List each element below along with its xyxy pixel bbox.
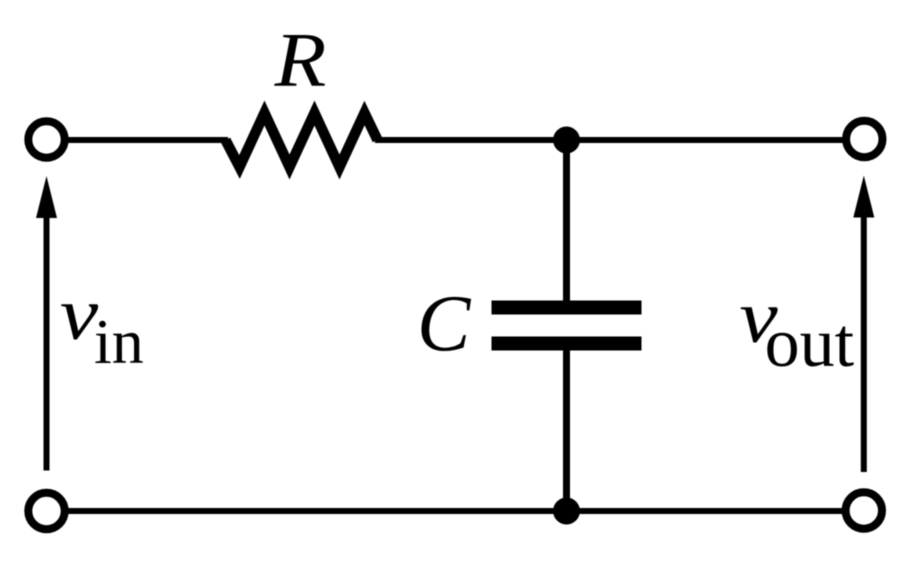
terminal (output top-right)	[846, 121, 882, 157]
wire (capacitor bottom plate down to node B)	[563, 346, 570, 511]
svg-text:C: C	[417, 281, 472, 369]
wire (top-left terminal to resistor)	[64, 137, 228, 143]
arrow v_in (shaft)	[44, 212, 50, 471]
node A (top junction dot)	[553, 127, 580, 154]
resistor R	[226, 113, 378, 167]
terminal (output bottom-right)	[846, 492, 882, 528]
wire (resistor to top-right terminal, through node A)	[375, 137, 847, 143]
arrow v_in (head)	[36, 176, 57, 218]
wire (bottom rail, bottom-left terminal to bottom-right terminal)	[64, 508, 846, 514]
svg-text:in: in	[94, 306, 144, 377]
svg-text:R: R	[274, 17, 327, 103]
node B (bottom junction dot)	[553, 498, 580, 525]
arrow v_out (shaft)	[861, 212, 867, 472]
terminal (input top-left)	[28, 121, 64, 157]
wire (node A down to capacitor top plate)	[563, 140, 570, 305]
svg-text:v: v	[60, 273, 98, 356]
capacitor C top plate	[492, 301, 642, 315]
svg-text:out: out	[765, 305, 855, 382]
arrow v_out (head)	[853, 176, 874, 218]
capacitor C bottom plate	[492, 337, 642, 351]
terminal (input bottom-left)	[28, 493, 64, 529]
